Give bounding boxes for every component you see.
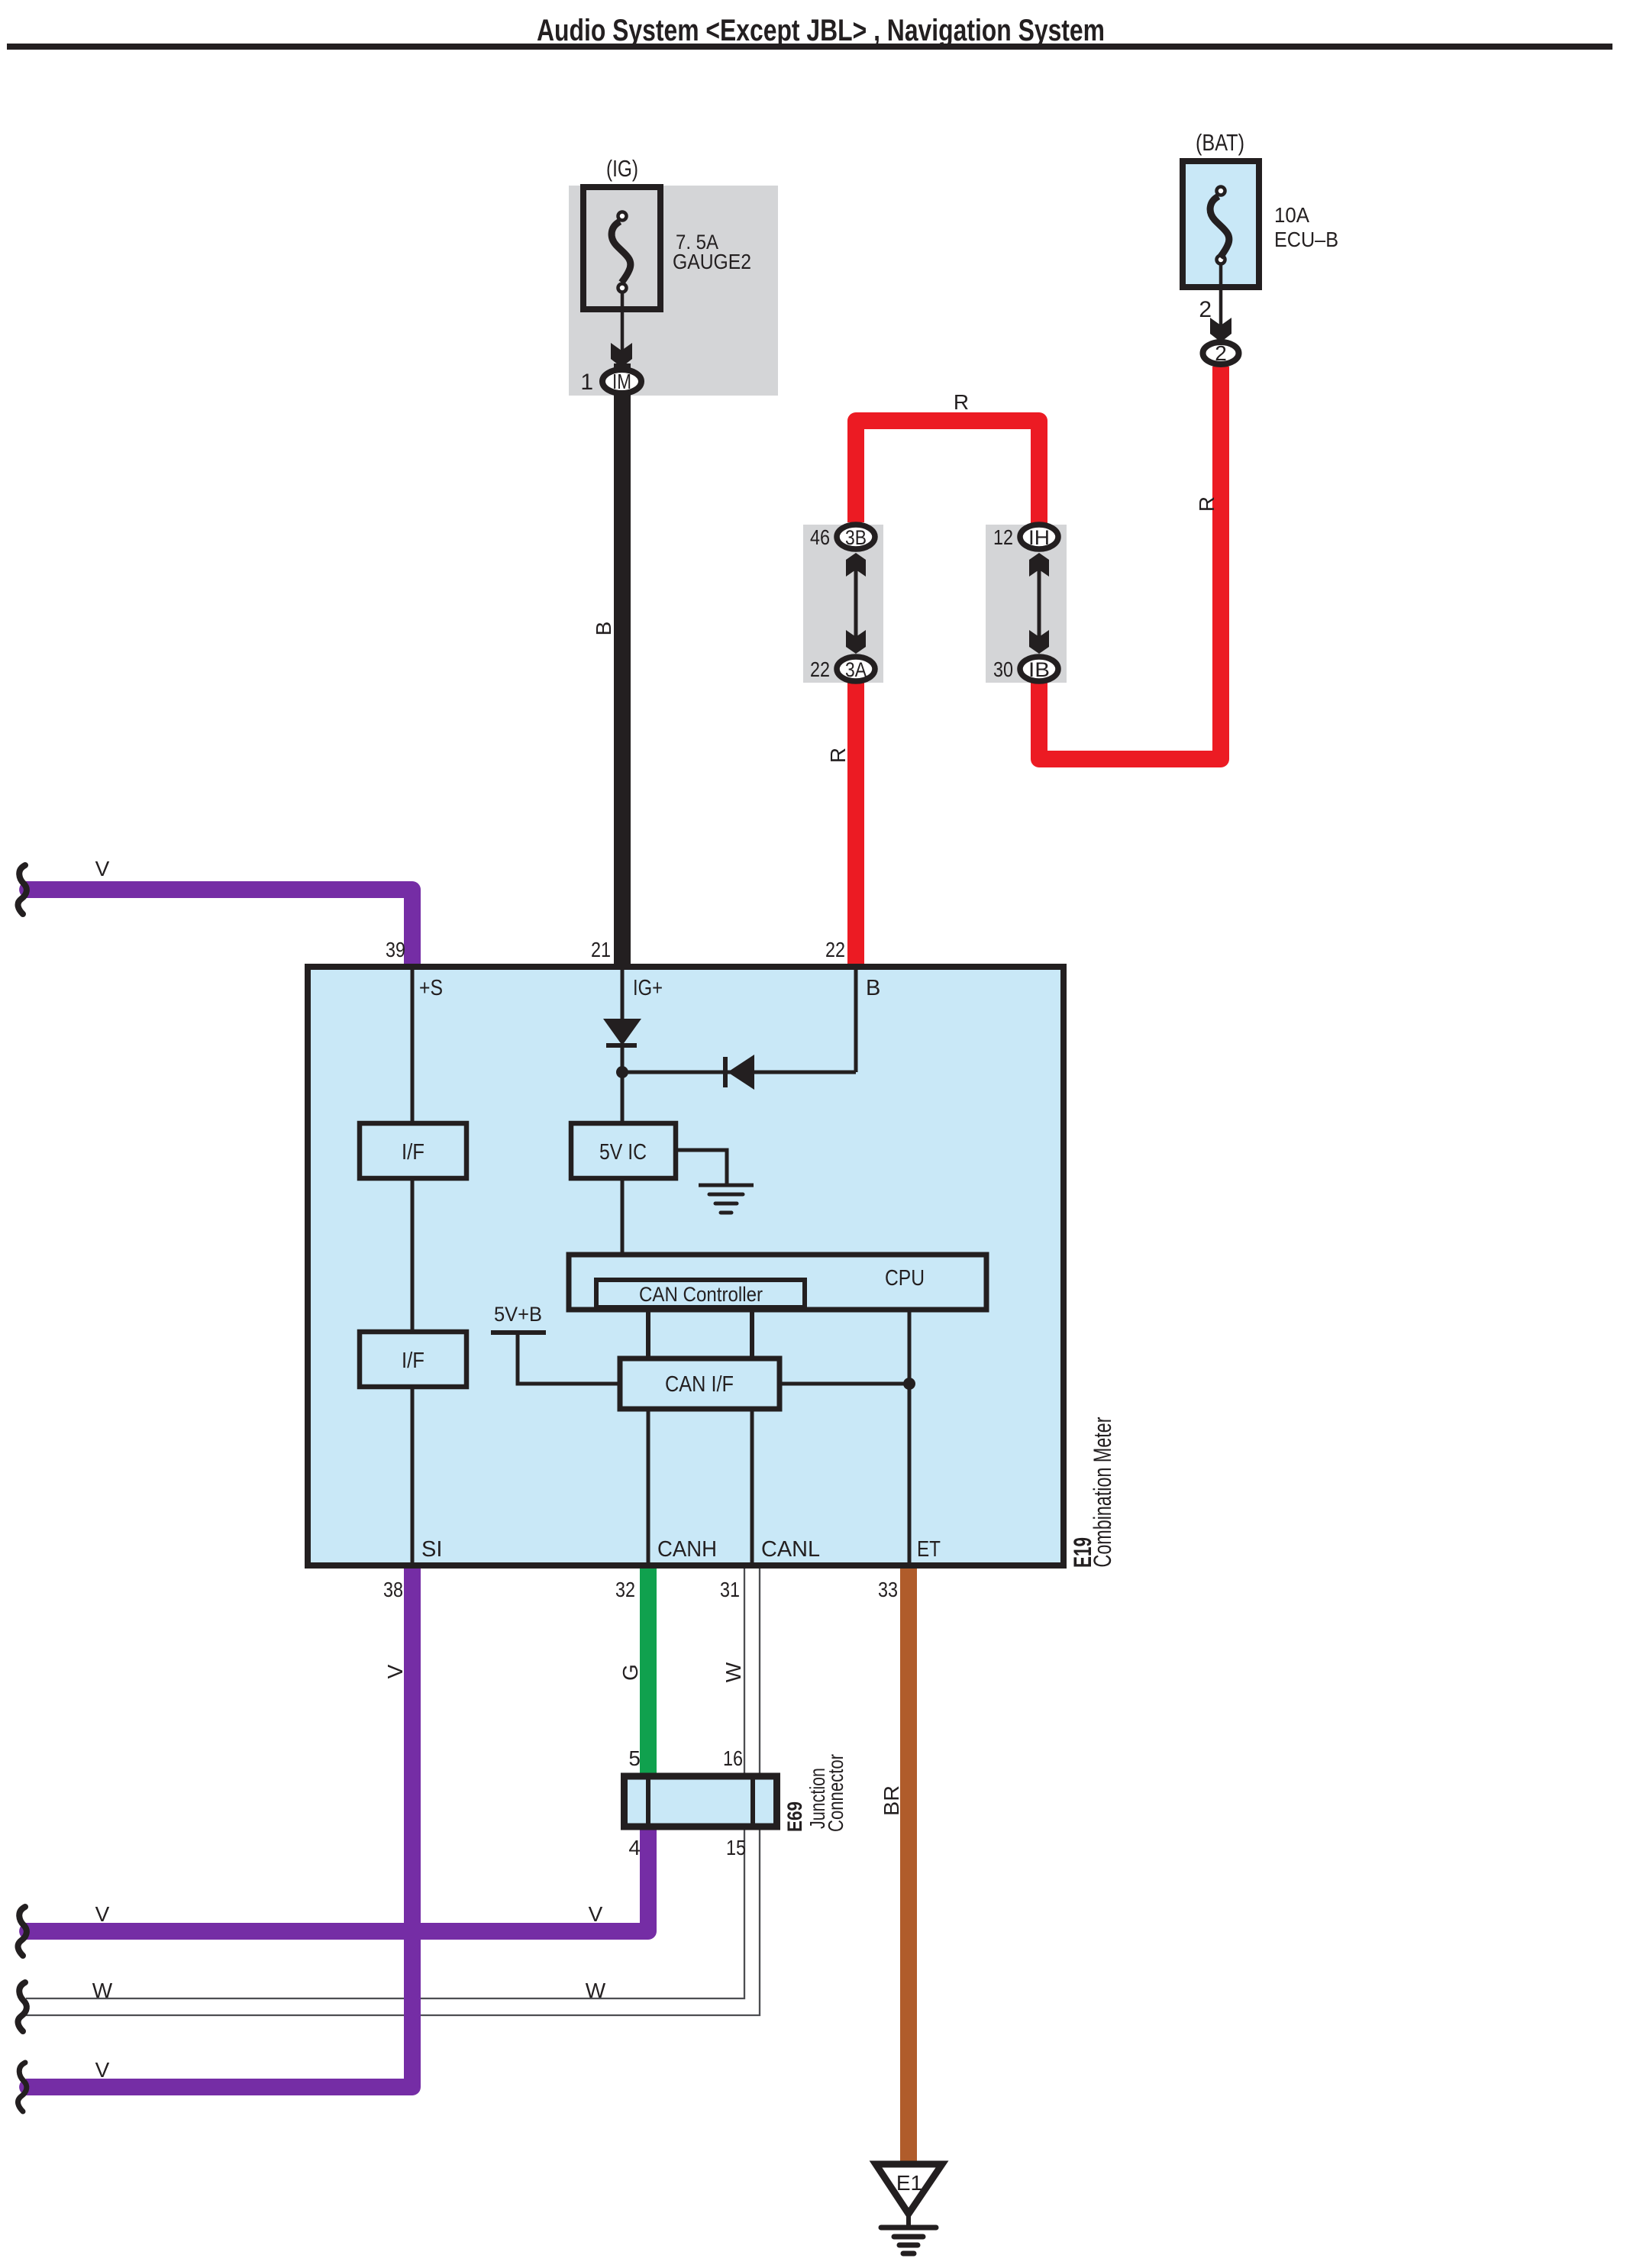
svg-text:33: 33 xyxy=(878,1578,898,1601)
title: Audio System Except JBL , Navigation System xyxy=(537,14,1105,47)
svg-text:5: 5 xyxy=(628,1746,641,1770)
power symbol 5V+B xyxy=(491,1303,620,1384)
svg-text:I/F: I/F xyxy=(402,1349,424,1373)
svg-text:+S: +S xyxy=(419,976,443,1000)
reference E19 Combination Meter xyxy=(1069,1417,1116,1568)
svg-text:R: R xyxy=(826,748,850,763)
svg-text:Audio System <Except JBL> , Na: Audio System <Except JBL> , Navigation S… xyxy=(537,14,1105,47)
svg-text:V: V xyxy=(95,2058,110,2082)
wire BR (brown) from pin 33 ET down to ground E1 xyxy=(900,1565,917,2166)
internal node +S wire xyxy=(411,967,415,1123)
svg-text:3A: 3A xyxy=(845,658,867,681)
svg-text:22: 22 xyxy=(825,938,845,961)
svg-text:CPU: CPU xyxy=(885,1266,925,1291)
wire V (violet) from E69 pin 4 down and left to break xyxy=(26,1825,648,1931)
svg-text:W: W xyxy=(92,1979,113,2002)
svg-text:39: 39 xyxy=(386,938,405,961)
svg-text:GAUGE2: GAUGE2 xyxy=(673,250,751,273)
wire break squiggle (V middle) xyxy=(18,1907,27,1956)
pin oval 3A xyxy=(837,657,875,681)
block CAN Controller xyxy=(596,1280,805,1307)
block CPU xyxy=(569,1255,986,1310)
svg-text:CANH: CANH xyxy=(657,1537,717,1562)
svg-text:V: V xyxy=(95,857,110,880)
svg-text:31: 31 xyxy=(720,1578,740,1601)
internal wire between I/F blocks xyxy=(411,1178,415,1332)
svg-text:46: 46 xyxy=(810,525,830,549)
junction connector E69 body xyxy=(625,1773,777,1830)
svg-text:21: 21 xyxy=(591,938,611,961)
fuse 10A ECU-B body xyxy=(1183,161,1259,287)
svg-text:IH: IH xyxy=(1028,526,1050,549)
combination meter E19 box xyxy=(308,967,1064,1565)
gray background panel of fuse GAUGE2 xyxy=(569,186,778,396)
svg-text:38: 38 xyxy=(383,1578,403,1601)
wire break squiggle (W) xyxy=(18,1982,27,2031)
svg-text:R: R xyxy=(1195,496,1219,512)
svg-text:ET: ET xyxy=(917,1537,941,1562)
svg-text:3B: 3B xyxy=(845,526,867,549)
block 5V IC xyxy=(571,1123,676,1178)
svg-text:16: 16 xyxy=(723,1746,743,1770)
svg-text:V: V xyxy=(383,1664,407,1678)
svg-text:W: W xyxy=(721,1662,745,1682)
svg-text:2: 2 xyxy=(1199,297,1212,322)
block I/F lower xyxy=(360,1332,466,1387)
pin oval IB xyxy=(1020,657,1058,681)
svg-text:G: G xyxy=(618,1664,642,1681)
wire R (red) from fuse ECU-B oval 2 down and left to connector IB xyxy=(1039,367,1221,759)
svg-text:(IG): (IG) xyxy=(606,155,638,182)
internal wire CPU to pin 33 ET xyxy=(908,1310,912,1565)
internal wire diode to 5V IC xyxy=(621,1048,625,1123)
block I/F upper xyxy=(360,1123,466,1178)
svg-text:SI: SI xyxy=(421,1537,442,1562)
wire fuse to pin IM xyxy=(621,292,625,351)
pin oval 3B xyxy=(837,525,875,549)
svg-text:Combination Meter: Combination Meter xyxy=(1089,1417,1116,1567)
block CAN I/F xyxy=(620,1359,780,1409)
gray background panel of connector IH/IB xyxy=(986,525,1067,683)
ground symbol E1 xyxy=(876,2164,942,2253)
wire R (red) loop from connector 3B to IH xyxy=(856,421,1039,525)
svg-text:IG+: IG+ xyxy=(633,976,663,1000)
wire V (violet) from left break to pin 39 +S xyxy=(26,890,412,967)
svg-text:CAN Controller: CAN Controller xyxy=(639,1283,763,1306)
internal wire CAN I/F to pin CANH xyxy=(647,1409,650,1565)
svg-text:ECU–B: ECU–B xyxy=(1274,228,1338,251)
gray background panel of connector 3B/3A xyxy=(803,525,883,683)
diode D1 (from IG+ pointing down) xyxy=(603,1019,641,1048)
wire fuse to oval 2 xyxy=(1219,264,1223,325)
internal wire CAN controller to CAN I/F (CANL) xyxy=(750,1307,754,1359)
node junction dot ET xyxy=(903,1378,915,1390)
svg-text:1: 1 xyxy=(580,370,593,395)
internal wire junction to pin 22 B xyxy=(622,967,856,1072)
svg-text:R: R xyxy=(954,390,969,414)
svg-text:12: 12 xyxy=(993,525,1013,549)
svg-text:(BAT): (BAT) xyxy=(1196,129,1244,156)
pin oval 2 xyxy=(1203,341,1239,365)
reference E69 Junction Connector xyxy=(783,1754,847,1832)
svg-text:2: 2 xyxy=(1215,341,1227,365)
svg-text:I/F: I/F xyxy=(402,1140,424,1165)
svg-text:32: 32 xyxy=(615,1578,635,1601)
fuse 7.5A GAUGE2 body xyxy=(583,187,660,309)
internal wire CAN I/F to ET node xyxy=(780,1382,909,1386)
wire B (black) from fuse GAUGE2 pin IM to pin 21 IG+ xyxy=(614,363,631,967)
svg-text:V: V xyxy=(95,1902,110,1926)
internal wire IG+ from pin 21 to diode xyxy=(621,967,625,1019)
svg-text:5V IC: 5V IC xyxy=(599,1140,647,1165)
svg-text:Connector: Connector xyxy=(824,1754,847,1832)
pin oval IH xyxy=(1020,525,1058,549)
svg-text:V: V xyxy=(589,1902,603,1926)
svg-text:CAN I/F: CAN I/F xyxy=(665,1372,734,1397)
svg-text:CANL: CANL xyxy=(761,1537,820,1562)
wire R (red) from connector 3A down to pin 22 B xyxy=(847,682,864,967)
svg-text:BR: BR xyxy=(880,1785,903,1816)
node junction dot IG+/B xyxy=(616,1066,628,1078)
diode D2 (from B pointing left) xyxy=(723,1055,754,1090)
svg-text:E1: E1 xyxy=(896,2171,922,2195)
value label 7.5A GAUGE2 xyxy=(673,231,751,273)
wire W (white) CANL: pin 31 down through E69 pins 16/15, left to page edge xyxy=(26,1565,760,2015)
wire G (green) from pin 32 CANH to E69 pin 5 xyxy=(640,1565,657,1779)
arrow into oval 2 xyxy=(1210,318,1231,342)
value label 10A ECU-B xyxy=(1274,203,1338,251)
wire break squiggle (V bottom) xyxy=(18,2063,27,2111)
title rule xyxy=(7,44,1612,50)
arrow into pin IM xyxy=(611,343,632,367)
junction arrow 3B-3A xyxy=(846,553,866,654)
internal wire 5V IC to CPU xyxy=(621,1178,625,1255)
svg-text:15: 15 xyxy=(726,1836,746,1859)
svg-text:B: B xyxy=(866,976,880,1000)
internal wire CAN I/F to pin CANL xyxy=(750,1409,754,1565)
svg-text:IM: IM xyxy=(612,370,631,393)
pin oval IM xyxy=(602,370,641,393)
wire V (violet) from pin 38 SI down and left to break xyxy=(26,1565,412,2087)
svg-text:W: W xyxy=(586,1979,606,2002)
internal ground of 5V IC xyxy=(676,1150,754,1213)
svg-text:B: B xyxy=(592,622,615,636)
wire break squiggle (V top) xyxy=(18,865,27,914)
svg-text:5V+B: 5V+B xyxy=(494,1303,542,1326)
svg-text:E69: E69 xyxy=(783,1801,806,1832)
svg-text:4: 4 xyxy=(628,1836,641,1859)
svg-text:IB: IB xyxy=(1028,658,1050,681)
svg-text:10A: 10A xyxy=(1274,203,1309,227)
internal wire CAN controller to CAN I/F (CANH) xyxy=(646,1307,650,1359)
junction arrow IH-IB xyxy=(1029,553,1049,654)
internal wire I/F to pin SI xyxy=(411,1387,415,1565)
svg-text:30: 30 xyxy=(993,657,1013,681)
svg-text:22: 22 xyxy=(810,657,830,681)
